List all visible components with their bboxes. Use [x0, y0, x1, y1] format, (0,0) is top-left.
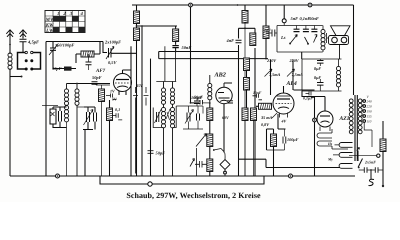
capacitor 50pF mica [52, 56, 76, 71]
choke field coil [336, 59, 340, 91]
mains filter caps 2x5nF [359, 160, 383, 173]
capacitor C4 50pF grid [92, 75, 102, 84]
svg-text:4: 4 [80, 11, 84, 17]
svg-text:220: 220 [367, 105, 372, 109]
tube AF7 [95, 68, 132, 95]
wire left vertical to ground bus [9, 69, 11, 177]
coil L3 RF secondary [75, 84, 79, 177]
phone jack lamp [213, 149, 230, 177]
wire filter to AZ1 [302, 91, 325, 111]
trimmer capacitor 2x100pF [104, 40, 136, 66]
junction node top 190 [189, 3, 193, 7]
trimmer capacitor 50/100pF [49, 42, 74, 57]
coil L7 [170, 107, 174, 176]
svg-text:4nF: 4nF [226, 38, 235, 43]
wire gang2 top [77, 106, 84, 108]
capacitor C15 5nF [291, 16, 300, 32]
capacitor C22 AB2 cathode [227, 101, 233, 103]
tuning gang section 2 [83, 107, 97, 176]
svg-text:230V: 230V [266, 58, 277, 63]
resistor R7 [207, 102, 213, 120]
IF bandfilter box [153, 46, 176, 127]
wire 220V feed [287, 58, 303, 90]
resistor R11 drop from bus [242, 5, 248, 176]
mains voltage taps [361, 95, 372, 124]
coil L6 [161, 107, 165, 176]
svg-text:190: 190 [367, 110, 372, 114]
tube AZ1 [317, 111, 350, 127]
resistor R6 [173, 26, 179, 45]
svg-text:V: V [367, 95, 370, 99]
filter block box [302, 59, 342, 91]
wave switch S1 [18, 50, 41, 70]
resistor R10 [250, 33, 256, 46]
node stub left [10, 76, 23, 78]
wire anode vertical x131 [130, 46, 132, 176]
antenna 2 [19, 30, 26, 39]
heater tap circles [349, 154, 380, 157]
svg-text:8μF: 8μF [314, 66, 321, 71]
potentiometer arrow [190, 134, 207, 177]
svg-text:4,5pF: 4,5pF [27, 40, 39, 45]
capacitor C6 cathode [106, 89, 117, 102]
svg-text:Schaub, 297W, Wechselstrom,: Schaub, 297W, Wechselstrom, 2 Kreise [126, 191, 261, 200]
capacitor C5 0.1uF [112, 107, 122, 120]
svg-text:50pF: 50pF [194, 95, 203, 100]
wire screen junction [136, 25, 177, 27]
tube AL4 [273, 81, 297, 124]
label 35mA [260, 113, 277, 127]
resistor R3 cathode [96, 84, 110, 177]
wire input frame top [46, 42, 103, 177]
heater winding labels [327, 142, 333, 162]
svg-text:My: My [327, 158, 333, 162]
chassis junction [56, 174, 60, 178]
capacitor C17 50nF [309, 16, 319, 32]
capacitor C14 1nF tone [264, 28, 286, 41]
svg-text:110: 110 [367, 120, 372, 124]
resistor chain grid AL4 [244, 58, 250, 109]
wire 230V feed [265, 58, 281, 95]
svg-text:7,5mA: 7,5mA [292, 72, 303, 77]
tone switch box [277, 26, 323, 53]
svg-text:AB2: AB2 [214, 72, 226, 79]
transformer primary mains [358, 99, 362, 134]
svg-text:35 mA: 35 mA [260, 115, 272, 120]
AZ1 filament winding loops [317, 127, 348, 150]
coil L1 antenna [8, 53, 12, 69]
svg-text:2x100pF: 2x100pF [104, 40, 121, 45]
svg-text:LW: LW [45, 28, 54, 34]
svg-text:60V: 60V [222, 115, 229, 120]
svg-text:45V: 45V [135, 83, 143, 88]
capacitor C2 [86, 54, 92, 70]
wire vertical x142 [141, 25, 143, 176]
capacitor C20 8uF [314, 75, 324, 91]
svg-text:2x5nF: 2x5nF [364, 160, 376, 165]
svg-text:220V: 220V [289, 58, 300, 63]
capacitor C8 45V caps below tube [133, 83, 149, 174]
capacitor C7 50nF [172, 45, 191, 52]
coil L5 [170, 82, 174, 108]
power transformer core [355, 95, 357, 161]
svg-text:Hz: Hz [327, 142, 333, 146]
wire gang1 bottom [42, 106, 67, 177]
wire bend to band trimmer [103, 42, 107, 53]
svg-text:10nF: 10nF [253, 91, 262, 95]
band table [45, 11, 86, 34]
resistor R13 1M grid [256, 103, 272, 109]
svg-text:50nF: 50nF [182, 45, 192, 50]
transformer secondary HV [349, 99, 353, 134]
svg-text:50nF: 50nF [309, 16, 319, 21]
oscillator coil L8 [208, 75, 212, 103]
caption [126, 191, 261, 200]
svg-text:0,8V: 0,8V [261, 122, 270, 127]
capacitor C21 0.1uF [303, 92, 315, 101]
svg-text:AZ1: AZ1 [339, 116, 350, 122]
resistor R14 [242, 108, 248, 176]
coil L4 [161, 82, 165, 108]
resistor R12 [263, 5, 269, 60]
tone switch arms [289, 35, 317, 45]
capacitor C16 0.1nF [300, 16, 311, 32]
capacitor C1 4.5pF [20, 39, 40, 52]
svg-text:KW: KW [45, 22, 54, 28]
capacitor C12 50pF osc [194, 95, 210, 105]
junction node top 310 [308, 3, 312, 7]
wire top right corner down [353, 5, 355, 95]
variable capacitor C11 [176, 106, 203, 129]
resistor R15 [251, 108, 257, 176]
resistor R2 [107, 100, 113, 176]
capacitor C10 160pF [191, 95, 202, 106]
junction node x284 [282, 5, 286, 26]
capacitor C19 8uF [314, 59, 324, 71]
grid wire node [67, 83, 111, 85]
coil L2 RF primary [64, 84, 68, 122]
svg-text:AF7: AF7 [95, 68, 106, 74]
wire vertical x148 [150, 59, 152, 176]
wire antenna1 to coil [9, 44, 11, 54]
svg-text:AL4: AL4 [286, 81, 297, 87]
svg-text:4V: 4V [281, 119, 287, 124]
mains right wire [364, 121, 386, 187]
dial lamp loop wire [100, 176, 264, 186]
junction dot top 237 [237, 4, 239, 6]
output transformer primary coil [321, 26, 325, 53]
heater winding loops [333, 143, 353, 169]
svg-text:50pF: 50pF [92, 75, 102, 80]
capacitor C9 50pF [148, 151, 166, 156]
top bus wire [132, 4, 354, 6]
svg-text:1nF: 1nF [264, 28, 271, 33]
svg-text:0,1: 0,1 [115, 107, 120, 112]
svg-text:7,5mA: 7,5mA [269, 72, 280, 77]
wire oscillator x190 [190, 5, 199, 104]
heater feed wire [239, 159, 341, 167]
svg-text:5V: 5V [112, 97, 117, 102]
capacitor C18 10nF [253, 91, 263, 100]
long wire AVC y53 [159, 51, 238, 53]
wire x302 tone to filter [301, 52, 303, 59]
trimmer T3 [155, 109, 171, 123]
junction node right [289, 174, 293, 178]
svg-text:Ls: Ls [280, 35, 286, 40]
long wire grid y59.5 [159, 52, 268, 59]
svg-text:0,5V: 0,5V [108, 60, 117, 65]
resistor R1 [76, 42, 100, 64]
tube AB2 [214, 72, 233, 153]
ground bus wire [10, 175, 355, 177]
svg-text:50/100pF: 50/100pF [57, 43, 74, 48]
bracket 4nF network [239, 27, 256, 176]
tuning gang section 1 [50, 107, 67, 128]
svg-text:240: 240 [367, 100, 372, 104]
chassis ground symbol [369, 169, 375, 185]
svg-text:8μF: 8μF [314, 75, 321, 80]
svg-text:100μF: 100μF [287, 137, 299, 142]
svg-text:155: 155 [367, 115, 372, 119]
cathode network AL4 [267, 90, 317, 176]
resistor chain R4 R5 from top bus [134, 5, 140, 176]
resistor R8 [207, 120, 213, 147]
svg-text:5nF: 5nF [291, 16, 299, 21]
mains switch [357, 148, 363, 169]
capacitor C13 4nF [226, 38, 242, 43]
resistor R9 [207, 146, 213, 176]
svg-text:1V: 1V [110, 89, 115, 94]
antenna 1 [6, 30, 13, 45]
loudspeaker [327, 26, 351, 59]
